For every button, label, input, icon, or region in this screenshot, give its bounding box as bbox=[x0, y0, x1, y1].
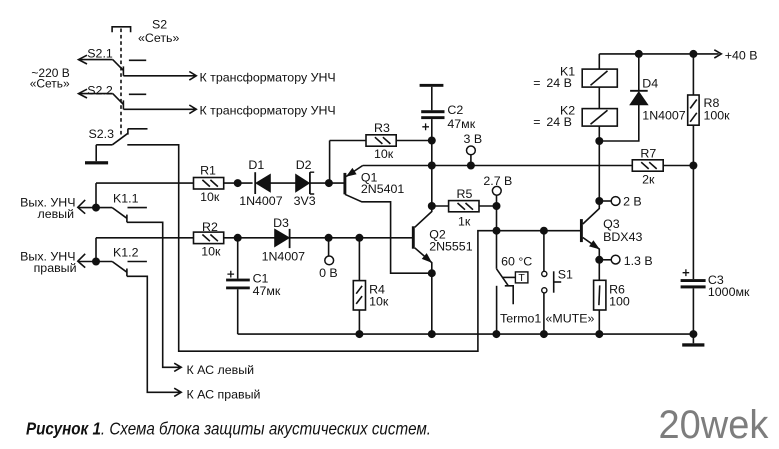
diode D3 bbox=[275, 229, 290, 248]
switch S2 dashed linkage line bbox=[120, 29, 122, 136]
node Q3 collector 2V bbox=[595, 197, 603, 205]
node R4 top bbox=[355, 234, 363, 242]
wire C2 down through node to R5 node bbox=[431, 119, 433, 206]
transistor Q3 BDX43 base bar bbox=[580, 219, 583, 242]
svg-text:R5: R5 bbox=[457, 187, 473, 201]
ground at S2.3 bbox=[85, 161, 108, 164]
svg-text:47мк: 47мк bbox=[447, 117, 475, 131]
svg-text:2.7 В: 2.7 В bbox=[483, 174, 512, 188]
capacitor C1 47mk electrolytic bbox=[226, 238, 250, 334]
wire C3 node to ground bbox=[692, 334, 694, 343]
node D4 top rail bbox=[635, 50, 643, 58]
diode D1 bbox=[255, 172, 270, 194]
switch S2 bracket bbox=[112, 27, 131, 33]
svg-text:3V3: 3V3 bbox=[294, 194, 316, 208]
wire S2.2 output to transformer bbox=[123, 105, 196, 114]
wire +40V top rail bbox=[599, 50, 721, 58]
svg-text:= 24 В: = 24 В bbox=[533, 76, 572, 90]
svg-text:D2: D2 bbox=[296, 158, 312, 172]
svg-text:= 24 В: = 24 В bbox=[533, 115, 572, 129]
wire bottom common rail bbox=[238, 333, 694, 335]
svg-text:2N5551: 2N5551 bbox=[429, 239, 473, 253]
resistor R3 bbox=[366, 135, 396, 146]
relay contact K1.1 bbox=[78, 200, 147, 222]
wire relay chain from rail bbox=[598, 54, 600, 69]
node D2-Q1 base bbox=[325, 179, 333, 187]
node R5 left bbox=[428, 202, 436, 210]
transistor Q2 emitter with arrow bbox=[415, 248, 432, 273]
wire D2 to Q1 base bbox=[310, 182, 344, 184]
resistor R6 leads bbox=[598, 260, 600, 334]
pushbutton S1 bbox=[542, 231, 562, 334]
wire R7 node down to C3 bbox=[692, 166, 694, 280]
node Q3 base line bbox=[493, 227, 501, 235]
wire K1.1 to AC left bbox=[127, 222, 181, 371]
node K1.2 common bbox=[92, 258, 100, 266]
wire R1 row left bbox=[96, 183, 194, 208]
svg-text:K1.1: K1.1 bbox=[113, 192, 139, 206]
svg-text:Q3: Q3 bbox=[603, 217, 620, 231]
svg-text:Termo1: Termo1 bbox=[500, 311, 541, 325]
node R2-D3 bbox=[234, 234, 242, 242]
resistor R6 bbox=[594, 280, 606, 310]
node K1.1 common bbox=[92, 204, 100, 212]
terminal 3V circle bbox=[467, 146, 476, 155]
node R4 bottom rail bbox=[355, 330, 363, 338]
svg-text:1N4007: 1N4007 bbox=[239, 194, 283, 208]
svg-text:+40 В: +40 В bbox=[725, 49, 758, 63]
resistor R4 bbox=[353, 281, 365, 310]
svg-text:К трансформатору УНЧ: К трансформатору УНЧ bbox=[200, 103, 336, 117]
svg-text:Рисунок 1. Схема блока защиты: Рисунок 1. Схема блока защиты акустическ… bbox=[26, 419, 431, 438]
resistor R8 leads bbox=[692, 54, 694, 166]
node C3 rail bbox=[689, 330, 697, 338]
wire K1.2 to AC right bbox=[127, 276, 181, 396]
svg-text:K1.2: K1.2 bbox=[113, 246, 139, 260]
node C2-R3 bbox=[428, 137, 436, 145]
wire D3 to Q2 base bbox=[290, 237, 412, 239]
relay coil K1 bbox=[582, 69, 617, 87]
wire R3 right lead to C2 node bbox=[396, 140, 432, 142]
terminal 2.7V circle bbox=[492, 186, 501, 195]
svg-text:«Сеть»: «Сеть» bbox=[138, 31, 179, 45]
svg-text:100: 100 bbox=[609, 294, 630, 308]
node R6 rail bbox=[595, 330, 603, 338]
node S1 rail bbox=[540, 330, 548, 338]
svg-text:T: T bbox=[518, 272, 525, 284]
svg-text:1N4007: 1N4007 bbox=[262, 249, 306, 263]
terminal 3V lead bbox=[470, 155, 472, 166]
capacitor C3 1000mk electrolytic bbox=[681, 269, 706, 334]
svg-text:10к: 10к bbox=[200, 190, 220, 204]
svg-text:D1: D1 bbox=[248, 158, 264, 172]
svg-text:левый: левый bbox=[37, 207, 74, 221]
wire S2.3 output sense line to node at Q3 base bbox=[127, 145, 580, 351]
node Q3 emitter 1.3V bbox=[595, 256, 603, 264]
transistor Q3 collector bbox=[583, 201, 600, 224]
node 0V bbox=[325, 234, 333, 242]
capacitor C2 47mk electrolytic bbox=[421, 87, 444, 130]
svg-text:3 В: 3 В bbox=[464, 132, 483, 146]
wire 2.7V node down to thermal switch bbox=[496, 195, 498, 269]
wire K1 to K2 bbox=[598, 87, 600, 109]
diode D4 flyback bbox=[599, 54, 647, 141]
svg-text:1000мк: 1000мк bbox=[708, 285, 750, 299]
thermal switch Termo1 bbox=[497, 269, 528, 334]
transistor Q1 collector path down to Q2 emitter node bbox=[345, 194, 432, 273]
terminal 0V circle bbox=[325, 256, 334, 265]
node Q2 emitter bbox=[428, 269, 436, 277]
svg-text:S2.3: S2.3 bbox=[89, 127, 115, 141]
switch S2.2 bbox=[79, 89, 147, 109]
svg-text:10к: 10к bbox=[201, 244, 221, 258]
transistor Q1 2N5401 base bar bbox=[343, 173, 346, 194]
ground bar above C2 bbox=[420, 84, 444, 87]
terminal 0V lead bbox=[328, 238, 330, 256]
transistor Q2 2N5551 base bar bbox=[412, 226, 415, 248]
svg-text:10к: 10к bbox=[369, 294, 389, 308]
svg-text:К АС левый: К АС левый bbox=[187, 363, 255, 377]
svg-text:60 °C: 60 °C bbox=[501, 254, 532, 268]
resistor R5 bbox=[432, 201, 497, 212]
svg-text:C2: C2 bbox=[447, 103, 463, 117]
transistor Q1 emitter with arrow bbox=[346, 166, 363, 177]
node Termo1 rail bbox=[492, 330, 500, 338]
node 3V rail bbox=[467, 162, 475, 170]
node Q2 rail bbox=[428, 330, 436, 338]
resistor R4 leads bbox=[358, 238, 360, 334]
svg-text:правый: правый bbox=[34, 261, 77, 275]
svg-text:R2: R2 bbox=[202, 220, 218, 234]
wire R1 to D1 bbox=[224, 182, 253, 184]
svg-text:R7: R7 bbox=[640, 147, 656, 161]
svg-text:К трансформатору УНЧ: К трансформатору УНЧ bbox=[200, 70, 336, 84]
node R5 right 2.7V bbox=[493, 202, 501, 210]
node R8 top rail bbox=[689, 50, 697, 58]
transistor Q2 collector bbox=[415, 206, 432, 227]
svg-text:0 В: 0 В bbox=[319, 266, 338, 280]
svg-text:47мк: 47мк bbox=[253, 284, 281, 298]
transistor Q3 emitter with arrow bbox=[583, 238, 600, 260]
svg-text:2к: 2к bbox=[642, 173, 655, 187]
svg-text:S2.1: S2.1 bbox=[87, 46, 113, 60]
switch S2.3 bbox=[96, 129, 147, 145]
svg-text:«Сеть»: «Сеть» bbox=[30, 76, 70, 90]
svg-text:«MUTE»: «MUTE» bbox=[546, 311, 595, 325]
wire D1 to D2 bbox=[270, 182, 295, 184]
relay contact K1.2 bbox=[78, 254, 147, 276]
node relay bottom D4 bbox=[595, 137, 603, 145]
wire S2.3 to ground bbox=[95, 145, 97, 161]
wire Q2 emitter node down to bottom rail bbox=[431, 273, 433, 334]
terminal 1.3V lead and circle bbox=[599, 255, 620, 264]
resistor R7 bbox=[632, 160, 693, 171]
svg-text:1.3 В: 1.3 В bbox=[624, 254, 653, 268]
wire R2 row left bbox=[96, 238, 194, 262]
svg-text:R3: R3 bbox=[374, 121, 390, 135]
wire R3 branch down to Q1 base node bbox=[329, 141, 331, 184]
svg-text:D4: D4 bbox=[642, 77, 658, 91]
wire K2 to node bbox=[598, 126, 600, 141]
svg-text:100к: 100к bbox=[704, 109, 731, 123]
terminal 2V lead and circle bbox=[599, 197, 620, 206]
svg-text:S2: S2 bbox=[152, 18, 167, 32]
node S1 top bbox=[540, 227, 548, 235]
svg-text:BDX43: BDX43 bbox=[603, 230, 642, 244]
resistor R8 bbox=[688, 95, 699, 125]
node R7-R8 bbox=[689, 162, 697, 170]
svg-text:10к: 10к bbox=[374, 147, 394, 161]
svg-text:S2.2: S2.2 bbox=[87, 83, 113, 97]
switch S2.1 bbox=[79, 55, 147, 76]
wire emitter rail y165 from Q1 to R7 bbox=[363, 165, 633, 167]
svg-text:2N5401: 2N5401 bbox=[361, 182, 405, 196]
relay coil K2 bbox=[582, 109, 617, 127]
svg-text:1N4007: 1N4007 bbox=[642, 109, 686, 123]
svg-text:2 В: 2 В bbox=[623, 195, 642, 209]
ground at C3 bbox=[682, 343, 704, 346]
wire R3 left lead bbox=[330, 140, 366, 142]
zener diode D2 bbox=[296, 172, 315, 194]
svg-text:R1: R1 bbox=[200, 164, 216, 178]
resistor R2 bbox=[194, 232, 224, 244]
node C2 rail bbox=[428, 162, 436, 170]
svg-text:1к: 1к bbox=[458, 214, 471, 228]
wire S2.1 output to transformer bbox=[123, 72, 196, 81]
svg-text:20wek: 20wek bbox=[659, 403, 769, 447]
resistor R1 bbox=[194, 178, 224, 190]
wire relay node down to Q3 collector bbox=[598, 141, 600, 201]
svg-text:К АС правый: К АС правый bbox=[187, 388, 261, 402]
wire R2 to D3 bbox=[224, 237, 275, 239]
node R1-D1 bbox=[234, 179, 242, 187]
svg-text:S1: S1 bbox=[558, 267, 573, 281]
svg-text:D3: D3 bbox=[273, 216, 289, 230]
